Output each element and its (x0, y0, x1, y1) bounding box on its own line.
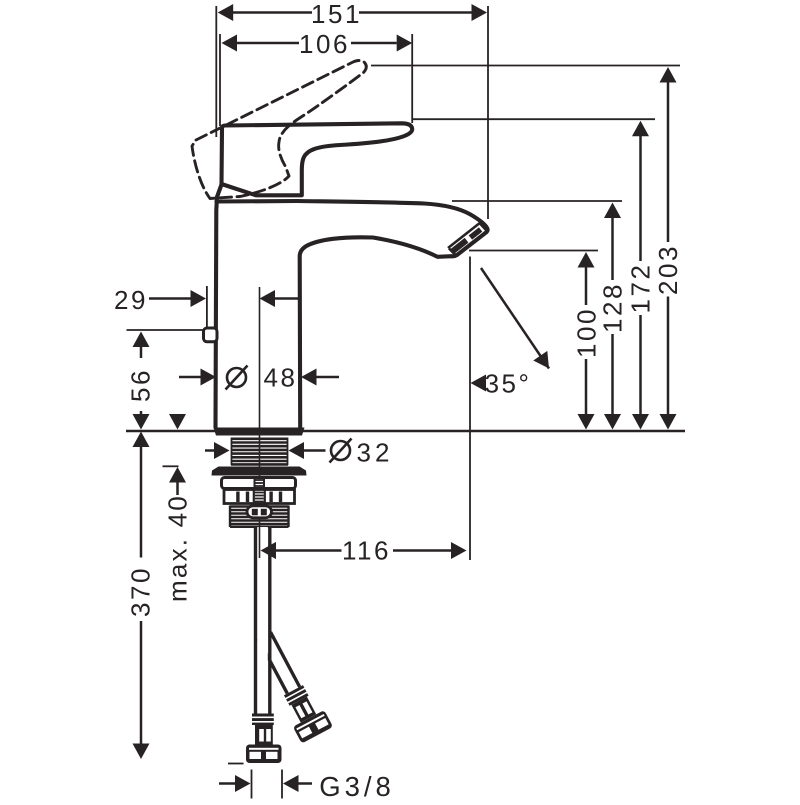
straight hose white mask (257, 527, 268, 714)
tab on pillar left (204, 328, 218, 342)
dim G3/8 (251, 770, 253, 799)
svg-text:max. 40: max. 40 (163, 494, 193, 602)
aerator inner line (448, 222, 481, 248)
extension line 128 body top (452, 200, 622, 202)
svg-text:151: 151 (311, 0, 362, 29)
extension line left 106 (219, 34, 221, 126)
svg-text:203: 203 (653, 244, 683, 295)
straight hose ferrule (252, 714, 274, 726)
body left edge (216, 185, 222, 428)
pill on rod (247, 506, 272, 518)
dim 29 (149, 297, 191, 300)
dim 172 vertical (639, 136, 642, 261)
dim 106 line (237, 42, 299, 45)
diameter symbol 48 (226, 366, 248, 390)
handle dashed raised (192, 61, 366, 199)
svg-text:29: 29 (114, 285, 148, 315)
straight hose end fitting (246, 745, 282, 764)
dim O32 (205, 449, 214, 452)
extension 370 bottom (228, 763, 244, 765)
dim 116 (261, 542, 277, 559)
svg-text:106: 106 (299, 29, 350, 59)
svg-text:172: 172 (626, 263, 656, 314)
threaded shank (231, 438, 288, 466)
body top + spout (217, 201, 488, 428)
castellated nut (224, 490, 295, 504)
flange (212, 467, 307, 476)
centerline (259, 287, 261, 558)
angled hose (249, 627, 333, 743)
dim max40 (169, 414, 186, 430)
extension line left 151 (215, 6, 217, 137)
svg-text:35°: 35° (485, 369, 532, 399)
extension line right 151 (487, 6, 489, 219)
centerline lower segment repaint (259, 527, 261, 558)
35 deg jet line (481, 268, 549, 369)
upper band (222, 478, 296, 489)
dim 151 line (233, 11, 312, 14)
dim 203 vertical (667, 82, 670, 242)
svg-text:116: 116 (342, 536, 391, 566)
svg-text:G3/8: G3/8 (319, 771, 395, 800)
aerator end caps (480, 224, 487, 231)
svg-text:370: 370 (126, 566, 156, 617)
dim 370 (133, 432, 150, 448)
dim 100 vertical (585, 267, 588, 305)
svg-text:32: 32 (357, 438, 394, 468)
deck line (126, 430, 685, 432)
straight hose (256, 527, 270, 714)
aerator slots (469, 227, 483, 239)
straight hose nut (255, 725, 273, 745)
diameter symbol 32 (330, 439, 352, 463)
rod through band (255, 478, 265, 490)
handle solid (222, 123, 413, 195)
extension line 172 handle top (412, 118, 655, 120)
base plinth (214, 428, 305, 436)
dim 116 left arrow repaint (261, 542, 277, 559)
threaded block (230, 506, 289, 528)
extension line 56 top (tab) (127, 329, 205, 331)
dim 128 vertical (611, 218, 614, 281)
dim O48 (179, 376, 201, 379)
extension line 203 top (371, 65, 680, 67)
svg-text:128: 128 (598, 282, 628, 333)
svg-text:48: 48 (264, 363, 298, 393)
dim 56 (133, 332, 150, 348)
svg-text:56: 56 (126, 368, 156, 402)
extension line 100 spout outlet (469, 250, 598, 252)
extension line right 106 (411, 34, 413, 123)
extension line 116 right / 35deg vertical (469, 257, 471, 561)
